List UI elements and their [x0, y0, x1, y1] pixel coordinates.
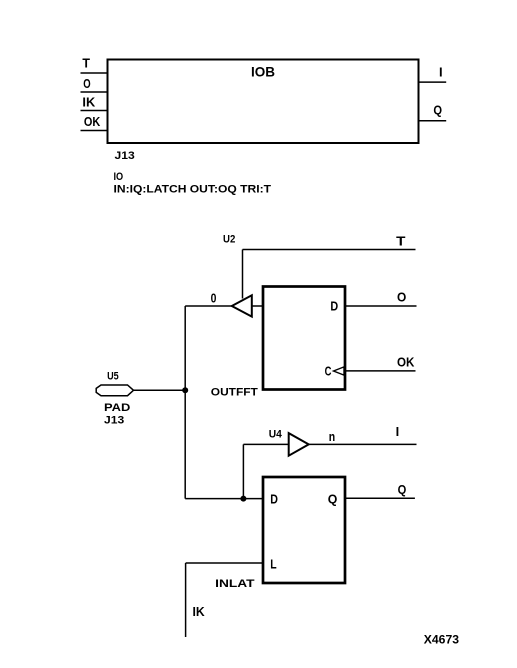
svg-text:I: I — [396, 424, 400, 439]
svg-text:U5: U5 — [107, 370, 119, 382]
svg-text:O: O — [397, 290, 406, 305]
pin D (OUTFFT) — [330, 290, 416, 314]
pad U5 (PAD symbol) — [96, 385, 133, 396]
svg-text:J13: J13 — [104, 415, 124, 427]
svg-text:IOB: IOB — [251, 64, 275, 80]
svg-text:n: n — [329, 429, 335, 444]
svg-text:O: O — [83, 76, 90, 91]
wire U4 input — [243, 444, 288, 498]
svg-text:T: T — [82, 56, 90, 71]
svg-text:0: 0 — [211, 290, 217, 305]
svg-text:C: C — [325, 364, 332, 379]
pin D (INLAT) — [185, 492, 278, 507]
latch INLAT (box) — [263, 477, 345, 583]
pin I (IOB right) — [419, 65, 447, 83]
pin Q (INLAT) — [328, 482, 415, 507]
svg-text:OK: OK — [397, 355, 415, 370]
pin T (IOB left) — [81, 56, 108, 73]
wire pad to junction — [134, 389, 186, 391]
flip-flop OUTFFT (box) — [263, 287, 345, 390]
svg-text:D: D — [330, 299, 338, 314]
svg-text:U4: U4 — [269, 428, 283, 440]
svg-text:L: L — [270, 557, 276, 572]
svg-text:Q: Q — [328, 492, 338, 507]
svg-text:OK: OK — [84, 114, 101, 129]
junction pad net — [182, 387, 188, 393]
wire U2 input from OUTFFT — [252, 305, 263, 307]
block IOB (top symbol box) — [108, 60, 419, 144]
svg-text:PAD: PAD — [104, 402, 130, 414]
wire pad net vertical — [184, 306, 186, 499]
pin C (OUTFFT clock) — [325, 355, 416, 379]
svg-text:T: T — [396, 234, 405, 249]
wire I (U4 output) — [309, 443, 417, 445]
pin O (IOB left) — [81, 76, 108, 92]
svg-text:U2: U2 — [223, 233, 235, 245]
svg-text:J13: J13 — [115, 150, 135, 162]
wire U2 output to pad net — [185, 305, 232, 307]
tri-state buffer U2 (left-pointing triangle) — [232, 295, 252, 316]
buffer U4 (right-pointing triangle) — [289, 433, 309, 456]
svg-text:IK: IK — [82, 95, 95, 110]
pin OK (IOB left) — [81, 114, 108, 131]
svg-text:Q: Q — [433, 103, 442, 118]
pin Q (IOB right) — [419, 103, 447, 121]
svg-text:IK: IK — [193, 604, 206, 619]
svg-text:IO: IO — [114, 171, 124, 183]
junction D net — [240, 496, 246, 502]
svg-text:INLAT: INLAT — [215, 578, 255, 590]
svg-text:Q: Q — [398, 482, 407, 497]
pin IK (IOB left) — [81, 95, 108, 111]
wire T (net T to buffer control) — [243, 250, 416, 299]
svg-text:X4673: X4673 — [424, 633, 460, 647]
svg-text:OUTFFT: OUTFFT — [211, 387, 258, 399]
svg-text:IN:IQ:LATCH OUT:OQ TRI:T: IN:IQ:LATCH OUT:OQ TRI:T — [114, 183, 272, 195]
svg-text:I: I — [439, 65, 443, 80]
svg-text:D: D — [270, 492, 278, 507]
pin L (INLAT latch enable) — [186, 557, 277, 638]
